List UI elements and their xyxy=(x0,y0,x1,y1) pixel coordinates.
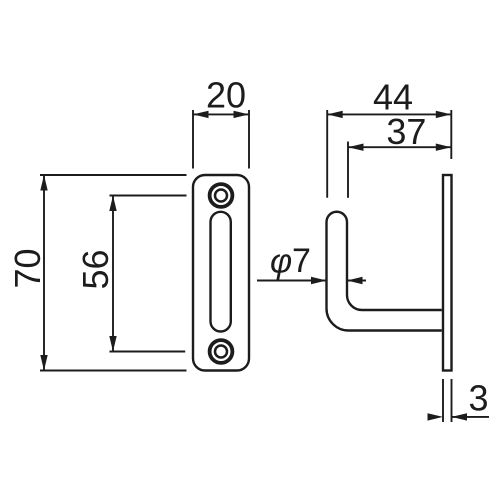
dim 56 extension line bottom xyxy=(110,351,186,353)
dim 56 line xyxy=(112,196,114,352)
dim 70 arrow top xyxy=(40,175,47,191)
dim 37 line xyxy=(348,146,451,148)
dim phi7 arrow right xyxy=(347,277,363,284)
svg-text:20: 20 xyxy=(206,75,246,116)
dim phi7 tail right xyxy=(347,280,366,282)
svg-text:7: 7 xyxy=(292,242,311,280)
dim 37 arrow right xyxy=(436,144,452,151)
dim 44 line xyxy=(327,113,451,115)
plate outline front view xyxy=(193,175,249,371)
bottom screw hole outer circle xyxy=(210,340,233,363)
dim 70 arrow bottom xyxy=(40,355,47,371)
dim 3 arrow left xyxy=(428,413,444,420)
dim 56 arrow bottom xyxy=(109,336,116,352)
dim 20 arrow left xyxy=(193,111,209,118)
top screw hole inner circle xyxy=(215,190,227,202)
dim 44 extension line left xyxy=(326,110,328,198)
dim 20 extension line right xyxy=(248,110,250,169)
dim 44 and 37 shared extension line right xyxy=(450,110,452,159)
dim 56 arrow top xyxy=(109,196,116,212)
dim 37 arrow left xyxy=(348,144,364,151)
dim 44 arrow right xyxy=(436,111,452,118)
dim phi7 arrow left xyxy=(311,277,327,284)
dim 20 extension line left xyxy=(192,110,194,169)
dim 20 arrow right xyxy=(234,111,250,118)
svg-text:φ: φ xyxy=(270,243,292,281)
dim phi7 leader line left xyxy=(257,280,327,282)
dim 20 line xyxy=(193,113,249,115)
dim 70 extension line top xyxy=(40,174,187,176)
back plate side view xyxy=(443,175,452,371)
dim 70 extension line bottom xyxy=(40,370,187,372)
dim 3 tail right xyxy=(452,416,490,418)
dim 44 arrow left xyxy=(327,111,343,118)
svg-text:3: 3 xyxy=(468,378,488,419)
dim 56 extension line top xyxy=(110,195,187,197)
dim 37 extension line left xyxy=(347,142,349,198)
bottom screw hole inner circle xyxy=(215,346,227,358)
dim 70 line xyxy=(43,175,45,371)
dim 3 arrow right xyxy=(452,413,468,420)
top screw hole outer circle xyxy=(210,184,233,207)
dim 3 extension line left xyxy=(442,379,444,422)
hook rod side view xyxy=(327,212,442,331)
dim 3 extension line right xyxy=(451,379,453,422)
svg-text:56: 56 xyxy=(75,249,116,289)
svg-text:37: 37 xyxy=(386,111,426,152)
svg-text:70: 70 xyxy=(7,248,48,288)
elongated slot xyxy=(211,212,231,332)
